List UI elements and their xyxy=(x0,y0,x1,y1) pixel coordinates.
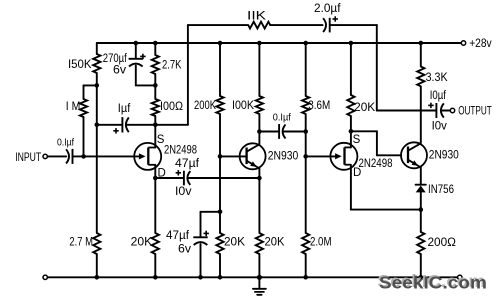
resistor 200K xyxy=(216,96,223,114)
svg-text:2.7K: 2.7K xyxy=(162,60,182,72)
capacitor 0.1uf input xyxy=(72,149,74,164)
svg-text:47µf: 47µf xyxy=(175,158,200,170)
svg-text:270µf: 270µf xyxy=(103,53,128,65)
wire 20K fourth to Q3 source node xyxy=(350,116,352,131)
label 2.0uf polarity + xyxy=(333,18,338,20)
resistor 2.7M xyxy=(93,233,100,254)
node 3.3K rail junction xyxy=(419,41,424,46)
wire 0.1uf to 3.6M node xyxy=(283,131,306,133)
resistor 3.3K xyxy=(417,67,424,87)
svg-text:2N2498: 2N2498 xyxy=(164,144,197,156)
svg-text:2N930: 2N930 xyxy=(429,149,459,161)
wire bottom ground rail xyxy=(47,276,457,278)
wire rail to 200K xyxy=(219,43,221,96)
wire output line xyxy=(377,110,436,112)
wire 47uf to Q2 emitter node xyxy=(188,177,259,179)
node Q1 drain junction xyxy=(153,176,158,181)
node 2.7M bottom rail junction xyxy=(95,275,100,280)
wire emitter down to 20K third xyxy=(258,178,260,233)
wire bias tap to 1uf xyxy=(97,124,122,126)
node Q2 collector junction xyxy=(257,129,262,134)
svg-text:47µf: 47µf xyxy=(166,230,190,242)
wire Q1 drain lead xyxy=(154,165,156,178)
wire 1uf to source node xyxy=(126,124,155,126)
resistor 150K xyxy=(93,54,100,73)
transistor Q2 2N930 xyxy=(240,143,266,169)
svg-text:0.Iµf: 0.Iµf xyxy=(57,137,74,148)
svg-text:INPUT: INPUT xyxy=(15,152,41,164)
wire gate node down to 2.0M xyxy=(305,156,307,233)
svg-text:20K: 20K xyxy=(354,102,375,114)
wire source link elbow xyxy=(351,130,377,132)
capacitor 2.0uf xyxy=(329,18,331,33)
node 2.7K rail junction xyxy=(153,41,158,46)
wire 200ohm to bottom rail xyxy=(420,254,422,277)
svg-text:2.7 M: 2.7 M xyxy=(69,237,93,249)
wire 2.7M to bottom rail xyxy=(96,254,98,277)
capacitor 1uf xyxy=(121,117,123,132)
capacitor 47uf 6v bypass xyxy=(193,236,207,238)
wire 20K to bottom rail xyxy=(154,254,156,277)
wire Q2 emitter lead xyxy=(258,168,260,178)
svg-text:S: S xyxy=(353,134,361,146)
svg-text:200Ω: 200Ω xyxy=(428,237,457,249)
node 3.6M cap junction xyxy=(303,129,308,134)
wire bypass elbow xyxy=(201,211,221,213)
wire rail to 3.3K xyxy=(420,43,422,67)
resistor 1M xyxy=(80,99,87,117)
resistor 20K second xyxy=(216,233,223,254)
node Q3 gate junction xyxy=(303,154,308,159)
wire Q2 base lead xyxy=(220,155,247,157)
wire 200K to base node xyxy=(219,114,221,156)
wire 10uf to output terminal xyxy=(441,110,450,112)
wire input to coupling cap xyxy=(48,155,67,157)
node 200ohm bottom rail junction xyxy=(419,275,424,280)
node 2.7K bottom junction xyxy=(153,83,158,88)
wire feedback right segment xyxy=(331,24,377,26)
ground xyxy=(258,277,260,288)
wire 150K to bias node xyxy=(96,73,98,85)
node bias junction xyxy=(95,83,100,88)
svg-text:I0v: I0v xyxy=(432,120,447,132)
svg-text:OUTPUT: OUTPUT xyxy=(458,105,492,117)
resistor 20K fourth xyxy=(347,95,354,116)
capacitor 47uf 10v coupling xyxy=(183,171,185,186)
resistor 200ohm xyxy=(417,232,424,254)
wire feedback left drop xyxy=(187,25,189,125)
terminal OUTPUT xyxy=(450,108,454,112)
node A junction (gate of Q1) xyxy=(81,154,86,159)
wire 3.6M to cap node xyxy=(305,114,307,132)
node 20K bottom rail junction xyxy=(153,275,158,280)
svg-text:3.3K: 3.3K xyxy=(426,72,448,84)
wire 1M elbow xyxy=(84,84,97,86)
wire 2.0M to bottom rail xyxy=(305,254,307,277)
label 1uf polarity + xyxy=(113,130,118,132)
resistor 100ohm xyxy=(152,99,159,116)
wire 20K second to bottom rail xyxy=(219,254,221,277)
svg-text:2.0M: 2.0M xyxy=(310,237,332,249)
wire drain to 47uf xyxy=(155,177,183,179)
diode D1 1N756 xyxy=(416,184,426,186)
node Q1 source junction xyxy=(153,123,158,128)
transistor Q3 2N2498 xyxy=(330,143,357,170)
svg-text:200K: 200K xyxy=(194,100,216,112)
wire rail to 20K fourth xyxy=(350,43,352,95)
node ground rail junction xyxy=(257,275,262,280)
terminal bottom left xyxy=(43,275,47,279)
svg-text:3.6M: 3.6M xyxy=(308,100,330,112)
svg-text:I0µf: I0µf xyxy=(430,90,447,102)
wire feedback right drop xyxy=(376,25,378,110)
wire feedback top left segment xyxy=(188,24,248,26)
wire feedback mid segment xyxy=(270,24,322,26)
wire Q3 drain link to diode node xyxy=(351,209,421,211)
wire cap node to Q3 gate node xyxy=(305,132,307,157)
terminal +28v xyxy=(461,41,465,45)
wire 20K third to bottom rail xyxy=(258,254,260,277)
svg-text:Iµf: Iµf xyxy=(118,103,131,115)
svg-text:2.0µf: 2.0µf xyxy=(314,3,341,15)
terminal bottom right xyxy=(458,275,462,279)
capacitor 10uf 10v output xyxy=(435,103,437,118)
svg-text:I0v: I0v xyxy=(175,186,192,198)
wire source node to feedback drop xyxy=(155,124,188,126)
resistor 2.7K xyxy=(152,55,159,74)
terminal INPUT xyxy=(43,154,47,158)
wire rail to 3.6M xyxy=(305,43,307,96)
svg-text:20K: 20K xyxy=(224,237,245,249)
resistor 20K first xyxy=(152,233,159,254)
wire collector to 0.1uf xyxy=(259,131,278,133)
resistor 11K xyxy=(248,22,270,29)
label 47uf bypass polarity + xyxy=(204,232,209,234)
wire 100ohm to source node xyxy=(154,116,156,125)
node Q2 emitter junction xyxy=(257,176,262,181)
wire 1M to node A xyxy=(83,117,85,156)
svg-text:6v: 6v xyxy=(178,244,191,256)
resistor 2.0M xyxy=(302,233,309,254)
node 20K second bottom rail junction xyxy=(218,275,223,280)
node diode junction xyxy=(419,207,424,212)
svg-text:I M: I M xyxy=(66,101,81,113)
svg-text:20K: 20K xyxy=(131,237,153,249)
svg-text:IIK: IIK xyxy=(247,11,266,23)
svg-text:I00K: I00K xyxy=(232,100,254,112)
wire Q4 collector lead xyxy=(420,86,422,143)
wire +28v supply rail xyxy=(97,42,462,44)
svg-text:I00Ω: I00Ω xyxy=(160,101,183,113)
transistor Q4 2N930 xyxy=(401,142,427,168)
wire down to 2.7M xyxy=(96,125,98,233)
wire Q1 source lead xyxy=(154,125,156,148)
node 200K rail junction xyxy=(218,41,223,46)
node 47uf bypass tap junction xyxy=(218,210,223,215)
svg-text:2N930: 2N930 xyxy=(268,150,299,162)
label 10uf polarity + xyxy=(428,104,433,106)
svg-text:2N2498: 2N2498 xyxy=(359,158,393,170)
svg-text:6v: 6v xyxy=(113,65,126,77)
wire bias node down to 1uf tap xyxy=(96,85,98,124)
node 100K rail junction xyxy=(257,41,262,46)
node 270uf rail junction xyxy=(134,41,139,46)
wire rail to 2.7K xyxy=(154,43,156,55)
svg-text:+28v: +28v xyxy=(469,38,492,50)
resistor 3.6M xyxy=(302,96,309,114)
node Q2 base junction xyxy=(218,154,223,159)
wire Q1 drain down to 20K xyxy=(154,178,156,233)
wire 2.7K to 100ohm xyxy=(154,74,156,99)
svg-text:SeekIC.com: SeekIC.com xyxy=(379,273,487,293)
svg-text:20K: 20K xyxy=(265,237,285,249)
node bypass bottom rail junction xyxy=(198,275,203,280)
wire bypass cap to bottom rail xyxy=(200,244,202,277)
node 1uf tap junction xyxy=(95,123,100,128)
label 47uf polarity + xyxy=(176,172,181,174)
wire Q3 source lead xyxy=(350,131,352,147)
wire 100K to collector node xyxy=(258,114,260,132)
resistor 20K third xyxy=(256,233,263,254)
wire 270uf bottom elbow xyxy=(135,66,137,86)
wire Q3 gate lead xyxy=(306,155,338,157)
wire rail to 100K xyxy=(258,43,260,96)
wire base node down to 20K second xyxy=(219,156,221,211)
wire tap to 20K second xyxy=(219,212,221,233)
wire Q2 collector lead xyxy=(258,132,260,145)
wire Q4 emitter lead xyxy=(420,167,422,184)
wire rail to 270uf xyxy=(135,43,137,58)
node 20K fourth rail junction xyxy=(349,41,354,46)
wire diode to 200ohm node xyxy=(420,192,422,232)
svg-text:IN756: IN756 xyxy=(428,184,454,196)
node Q3 source junction xyxy=(349,129,354,134)
capacitor 0.1uf interstage xyxy=(278,124,280,139)
capacitor 270uf 6v xyxy=(129,58,143,60)
wire rail to 150K xyxy=(96,43,98,54)
wire Q3 drain lead xyxy=(350,165,352,210)
svg-text:I50K: I50K xyxy=(68,59,92,71)
node 3.6M rail junction xyxy=(303,41,308,46)
transistor Q1 2N2498 xyxy=(134,143,161,170)
svg-text:0.Iµf: 0.Iµf xyxy=(273,112,291,124)
label 270uf polarity + xyxy=(140,55,145,57)
node 2.0M bottom rail junction xyxy=(303,275,308,280)
resistor 100K xyxy=(256,96,263,114)
wire cap to node A xyxy=(73,155,142,157)
